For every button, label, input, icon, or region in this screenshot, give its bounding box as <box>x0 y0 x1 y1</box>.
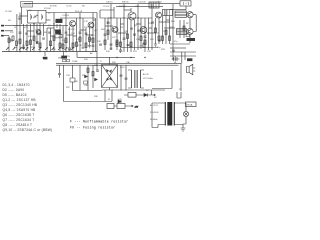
wire vertical x44 <box>43 24 45 36</box>
svg-text:F --- Nonflammable resistor: F --- Nonflammable resistor <box>70 120 128 124</box>
capacitor C51 <box>25 33 28 34</box>
bridge rectifier D1-D4 <box>102 65 118 88</box>
wire rv10 <box>158 18 160 44</box>
wire right grid h1 <box>170 43 190 45</box>
wire signal line left <box>5 25 68 27</box>
svg-text:R1 10K: R1 10K <box>44 8 51 10</box>
box fuse resistor FU2 <box>128 93 136 98</box>
svg-text:FU -- Fusing resistor: FU -- Fusing resistor <box>70 126 115 130</box>
capacitor C12 <box>137 30 140 31</box>
box battery B1 <box>180 1 191 6</box>
wire second top line <box>46 12 97 14</box>
terminal GND <box>1 35 9 52</box>
svg-text:T0.5A: T0.5A <box>187 104 193 107</box>
wire mains double line lower <box>56 64 179 66</box>
resistor R2b <box>16 41 18 45</box>
svg-text:R40 56: R40 56 <box>122 2 129 4</box>
resistor R23 <box>158 36 160 40</box>
wire rv21 <box>155 18 157 36</box>
ground g5 <box>119 50 122 52</box>
svg-text:C41 100: C41 100 <box>138 2 146 4</box>
wire vertical x69 <box>69 27 71 49</box>
capacitor C57 <box>151 22 154 23</box>
switch arrow S1h <box>52 48 55 51</box>
wire stub o <box>149 27 153 29</box>
wire signal line left lower <box>5 30 13 32</box>
resistor R29 <box>140 36 142 40</box>
resistor R34 <box>183 26 185 30</box>
box IFT4 <box>163 10 173 16</box>
wire bridge top lead <box>109 57 111 64</box>
wire feed corner <box>77 52 135 57</box>
capacitor VC1 <box>33 15 38 18</box>
wire vertical x40 <box>39 23 41 52</box>
switch arrow S1j <box>65 48 68 51</box>
wire vertical x23 <box>23 24 25 46</box>
wire rv20 <box>148 18 150 50</box>
wire d6 lead <box>142 90 151 95</box>
switch arrow S1d <box>26 48 29 51</box>
wire top parallel line <box>116 5 163 7</box>
label band indicator bold <box>43 57 47 60</box>
node +9V arrow <box>128 105 139 109</box>
speaker SP1 <box>187 64 196 74</box>
svg-text:117V 60Hz: 117V 60Hz <box>143 78 153 80</box>
capacitor C50 <box>18 18 21 19</box>
wire mid drop1 <box>72 65 74 78</box>
wire mid horizontal y90 <box>73 90 103 92</box>
ground g2 <box>35 40 38 44</box>
capacitor C1 <box>19 32 22 33</box>
transistor Q3 <box>36 30 41 35</box>
resistor R13 <box>87 68 89 72</box>
resistor R1b <box>8 38 10 42</box>
wire rh2 <box>118 32 127 34</box>
capacitor C43 <box>125 78 128 79</box>
label speaker bold <box>187 58 192 61</box>
svg-text:C3 0.01: C3 0.01 <box>62 15 70 17</box>
wire right grid h4 <box>170 55 196 57</box>
wire stub k <box>51 35 55 37</box>
wire vertical x37b <box>36 24 38 40</box>
transistor Q4 <box>112 27 118 33</box>
diode D6 <box>144 94 147 97</box>
resistor R19 <box>130 42 132 46</box>
capacitor C9 <box>144 36 147 37</box>
svg-text:DRIVE: DRIVE <box>58 58 65 60</box>
wire vertical x34 <box>33 23 35 52</box>
diode D5 <box>118 100 121 103</box>
wire rh6 <box>164 27 175 29</box>
svg-text:TONE: TONE <box>72 61 78 63</box>
resistor R30 <box>143 43 145 47</box>
resistor R1 <box>12 36 14 40</box>
wire bridge drop1 <box>104 90 106 102</box>
svg-text:Q4,5 --- 2SA970 HB: Q4,5 --- 2SA970 HB <box>3 108 36 112</box>
capacitor C11 <box>130 28 133 29</box>
capacitor C13 <box>158 40 161 41</box>
resistor R15 <box>104 40 106 44</box>
wire rv12 <box>172 4 174 60</box>
svg-text:Q8 ----- 2SA814 T: Q8 ----- 2SA814 T <box>3 123 33 127</box>
svg-text:R2 33K: R2 33K <box>50 6 57 8</box>
transistor Q6 <box>140 27 147 34</box>
wire stub c <box>47 27 54 29</box>
box ripple filter <box>70 78 75 82</box>
resistor R5b <box>62 44 64 48</box>
capacitor C10 <box>110 48 113 49</box>
wire rh8 <box>124 9 131 11</box>
transformer T3 audio <box>128 70 144 88</box>
svg-text:L2 OSC: L2 OSC <box>5 11 13 13</box>
capacitor C6 <box>96 70 99 71</box>
resistor R7 <box>59 43 61 47</box>
wire vertical x50 <box>50 28 52 52</box>
wire rv18 <box>134 20 136 50</box>
svg-text:220-240V: 220-240V <box>150 112 159 114</box>
box detector unit <box>55 35 62 38</box>
resistor R4b <box>50 41 52 45</box>
wire vertical x27 <box>26 24 28 52</box>
box fuse small <box>186 34 190 37</box>
capacitor C37 <box>58 74 61 78</box>
switch arrow S1g <box>45 48 48 51</box>
wire drive drop <box>63 52 65 56</box>
resistor R2 <box>19 39 21 43</box>
wire rh5 <box>159 21 170 23</box>
wire coupling line mid <box>60 17 95 19</box>
component value labels <box>5 2 189 101</box>
wire stub m <box>93 19 96 21</box>
box FM tuner unit <box>21 2 33 8</box>
wire stub h <box>86 34 93 36</box>
wire stub f <box>46 19 51 21</box>
wire long down left <box>63 65 65 101</box>
power transformer T4 <box>152 102 186 126</box>
svg-text:C21 47: C21 47 <box>103 6 110 8</box>
resistor R10 <box>79 37 81 41</box>
wire rv4 <box>123 4 125 52</box>
wire bridge out bottom <box>109 88 111 91</box>
transformer T2b dark box <box>55 30 60 34</box>
box bias cell b <box>67 59 70 61</box>
wire legend horizontal <box>64 101 113 103</box>
switch arrow S1i <box>58 48 61 51</box>
wire filter v2 <box>125 65 127 90</box>
wire f links <box>114 105 128 107</box>
wire mid drop2 <box>79 65 81 90</box>
wire enclosure <box>152 70 172 89</box>
wire rh7 <box>100 10 114 18</box>
transistor Q1 <box>70 21 76 27</box>
wire q9 top lead <box>170 9 186 11</box>
capacitor C5b <box>82 47 85 48</box>
wire ant vertical <box>16 14 18 31</box>
plug prongs <box>177 92 181 98</box>
capacitor C53 <box>65 32 68 33</box>
box filter F1 <box>107 104 114 109</box>
switch arrow S1f <box>39 48 42 51</box>
wire vertical x66 <box>65 13 67 52</box>
box driver dark label <box>61 56 67 59</box>
resistor R7b <box>89 37 91 41</box>
wire rv19 <box>140 18 142 46</box>
svg-text:47μ: 47μ <box>174 41 177 43</box>
ground g4 <box>88 44 91 48</box>
diode D9 <box>95 78 98 81</box>
ground g1 <box>22 46 25 50</box>
wire stub j <box>9 39 13 41</box>
transformer T2 dark box <box>56 19 62 23</box>
ground g7 <box>154 36 157 46</box>
svg-text:C8 18: C8 18 <box>55 21 61 23</box>
wire right grid v1 <box>189 18 191 43</box>
diode network upper hatched <box>175 11 187 17</box>
wire rv5 <box>130 8 132 12</box>
wire stub p <box>166 19 170 21</box>
wire rv3 <box>116 18 118 50</box>
wire stub b <box>27 30 34 32</box>
ground g3 <box>68 48 71 50</box>
wire rv15 <box>113 7 115 18</box>
switch arrow S1e <box>32 48 35 51</box>
wire mains left <box>152 103 158 128</box>
wire rh4 <box>147 32 155 34</box>
jack J1 <box>172 56 180 63</box>
resistor R6b <box>76 42 78 46</box>
resistor R25 <box>107 30 109 34</box>
wire fu2 leads <box>124 94 142 96</box>
resistor R6 <box>53 36 55 40</box>
resistor R14 <box>92 72 94 76</box>
capacitor C56 <box>133 34 136 35</box>
wire rh3 <box>136 23 141 25</box>
wire rv24 <box>183 20 185 38</box>
resistor R16 <box>110 44 113 45</box>
wire bottom bus y90 <box>102 89 165 91</box>
wire rv13 <box>179 20 181 38</box>
wire vertical x60 <box>59 24 61 52</box>
wire battery drop <box>185 6 187 10</box>
svg-text:50-60Hz: 50-60Hz <box>150 119 158 121</box>
node +9V tap <box>151 94 155 96</box>
wire right signal line <box>100 17 152 19</box>
svg-text:C5 30: C5 30 <box>66 6 72 8</box>
wire rv11 <box>165 10 167 44</box>
wire vertical x20 <box>19 13 21 52</box>
wire rv2 <box>110 4 112 50</box>
resistor R12 <box>92 38 94 42</box>
resistor R24 <box>165 30 167 34</box>
wire stub a <box>13 25 20 27</box>
svg-text:10μ: 10μ <box>157 47 160 49</box>
resistor R27 <box>127 34 129 38</box>
svg-text:Q1,2 --- 2SC137 HB: Q1,2 --- 2SC137 HB <box>3 98 36 102</box>
wire mid drop4 <box>87 65 89 90</box>
resistor R20 <box>121 47 158 49</box>
wire stub n <box>121 23 125 25</box>
svg-text:AC 117V: AC 117V <box>150 104 159 107</box>
wire stub l <box>73 35 77 37</box>
svg-text:Q9,10 -- 2SB734A C or (BBW): Q9,10 -- 2SB734A C or (BBW) <box>3 128 53 132</box>
svg-text:C40 10: C40 10 <box>106 2 113 4</box>
svg-text:AC IN: AC IN <box>143 73 149 76</box>
box bias cell a <box>62 59 66 61</box>
wire rv17 <box>127 18 129 52</box>
wire vertical x86 <box>85 28 87 52</box>
svg-text:Q3 ----- 2SC1340 HB: Q3 ----- 2SC1340 HB <box>3 103 38 107</box>
wire vertical x63 <box>62 26 64 52</box>
transistor Q10 <box>187 28 193 34</box>
wire vertical x96 <box>95 18 97 52</box>
inductor L2 <box>42 14 43 20</box>
wire mid drop5 <box>92 65 94 88</box>
wire mains double line upper <box>56 62 181 64</box>
transistor Q5 <box>128 12 136 20</box>
wire band switch bus <box>2 51 97 53</box>
resistor R17 <box>116 40 118 44</box>
capacitor C3 <box>59 33 62 34</box>
svg-text:R9 150: R9 150 <box>68 29 75 31</box>
mains voltage labels <box>150 104 193 122</box>
wire top supply bus <box>24 3 180 5</box>
resistor R33 <box>169 36 171 40</box>
wire bus drop right <box>96 13 98 71</box>
wire right grid v2 <box>182 52 185 63</box>
diode D8 <box>85 75 88 78</box>
wire sw1 drop <box>44 52 46 57</box>
capacitor C4 <box>79 32 82 33</box>
box tuner block <box>28 11 47 24</box>
resistor R22 <box>127 45 130 46</box>
capacitor C7 <box>104 34 107 35</box>
resistor R3 <box>26 41 28 45</box>
wire vertical x83 <box>82 18 84 46</box>
ground <box>181 124 187 131</box>
capacitor C3b <box>42 38 45 39</box>
svg-text:R5 4.7K: R5 4.7K <box>75 11 83 13</box>
terminal ANT1 <box>1 25 4 27</box>
wire stub i <box>20 15 28 17</box>
box thermistor <box>84 81 88 84</box>
wire vertical x93 <box>92 13 94 52</box>
switch arrow S1c <box>19 48 22 51</box>
resistor R32 <box>162 36 164 40</box>
resistor R8 <box>65 38 67 42</box>
wire rv16 <box>120 18 122 50</box>
wire rv7 <box>137 4 139 50</box>
svg-text:SW1: SW1 <box>42 58 48 60</box>
wire vertical x16 <box>16 31 18 52</box>
terminal ANT2 <box>1 30 4 32</box>
capacitor C55 <box>107 22 110 23</box>
wire right grid h2 <box>170 47 186 49</box>
wire vertical x89 <box>89 28 91 44</box>
switch arrow S1k <box>71 48 74 51</box>
resistor R5 <box>39 43 41 47</box>
box filter F2 <box>117 104 125 109</box>
label output bold <box>187 38 196 41</box>
diode network lower hatched <box>177 29 187 35</box>
wire vertical x73 <box>72 27 74 52</box>
wire rv8 <box>144 18 146 52</box>
capacitor C54 <box>85 33 88 34</box>
resistor R3b <box>30 40 32 44</box>
wire rv14 <box>108 18 111 40</box>
resistor R28 <box>116 42 118 46</box>
resistor R21 <box>144 40 146 44</box>
wire vertical x57 <box>56 24 58 28</box>
transistor Q7 <box>156 12 162 18</box>
svg-text:D2 ----- 0A90: D2 ----- 0A90 <box>3 88 25 92</box>
resistor R31 <box>155 28 157 32</box>
capacitor C4b <box>68 49 71 50</box>
svg-text:Q7 ----- 2SC1634 T: Q7 ----- 2SC1634 T <box>3 118 35 122</box>
capacitor C42 <box>120 75 123 76</box>
resistor R4 <box>33 36 35 40</box>
transistor Q9 <box>187 12 193 18</box>
wire output couple <box>193 15 196 32</box>
wire rv6 <box>130 20 132 52</box>
svg-text:Q6 ----- 2SC1638 T: Q6 ----- 2SC1638 T <box>3 113 35 117</box>
wire rv1 <box>104 18 106 50</box>
svg-text:R17 1K: R17 1K <box>119 6 126 8</box>
wire stub d <box>66 34 73 36</box>
box IFT3 <box>149 2 159 8</box>
fuse FU1 <box>183 103 188 124</box>
wire vertical x80 <box>79 13 81 52</box>
svg-text:C7 2P: C7 2P <box>35 30 41 32</box>
resistor R11 <box>85 43 87 47</box>
wire vertical x76 <box>76 18 78 52</box>
transistor Q2 <box>88 22 94 28</box>
wire stub g <box>54 29 60 31</box>
wire right grid h3 <box>170 51 196 53</box>
resistor R18 <box>99 44 102 45</box>
resistor R26 <box>120 42 122 46</box>
wire filter v1 <box>120 65 122 90</box>
wire stub e <box>80 29 86 31</box>
capacitor C8 <box>123 38 126 39</box>
svg-text:D5 ----- BA102: D5 ----- BA102 <box>3 93 27 97</box>
ground g6 <box>139 46 142 48</box>
wire vertical x47 <box>46 28 48 52</box>
wire rv22 <box>162 16 164 44</box>
wire vertical x54 <box>53 13 55 52</box>
capacitor C52 <box>48 32 51 33</box>
switch arrow S1b <box>13 48 16 51</box>
wire rh1 <box>105 25 113 27</box>
capacitor C2b <box>36 42 39 43</box>
capacitor C14 <box>172 50 175 51</box>
switch arrow S1a <box>6 48 9 51</box>
wire mains drop right <box>180 63 182 91</box>
wire mid drop3 <box>59 65 61 73</box>
wire bridge drop2 <box>111 90 113 102</box>
wire rv9 <box>151 4 153 50</box>
wire vertical x30b <box>30 24 32 52</box>
box fuse rating <box>186 102 197 107</box>
svg-text:D1,3,4 - 1N3470: D1,3,4 - 1N3470 <box>3 83 30 87</box>
capacitor C5 <box>92 45 95 46</box>
inductor L1 <box>31 14 32 20</box>
resistor R9 <box>72 43 74 47</box>
wire ripple drop <box>72 82 74 91</box>
capacitor C1b <box>22 47 25 48</box>
capacitor C2 <box>39 33 42 34</box>
junction dots <box>19 17 145 58</box>
wire rv23 <box>169 16 171 44</box>
